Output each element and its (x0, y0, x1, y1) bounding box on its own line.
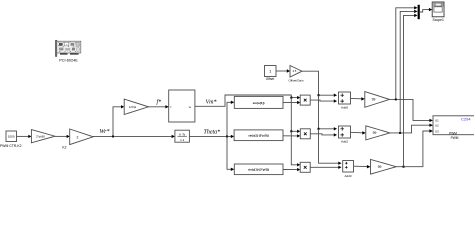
PCI card device block U0 (55, 40, 80, 56)
wire x1 to Add1 (310, 100, 334, 101)
wire Vm* over-route to product x1 (195, 95, 297, 106)
svg-text:PWM CTR-K2: PWM CTR-K2 (0, 144, 22, 148)
wire Wr* main to integrator (93, 135, 172, 137)
node offset junction 1 (318, 94, 320, 96)
node Wr junction (112, 135, 114, 137)
svg-text:U2: U2 (435, 124, 439, 128)
node gain2 junction (399, 132, 401, 134)
svg-text:U1: U1 (435, 118, 439, 122)
svg-text:Add3: Add3 (344, 174, 351, 178)
Fcn block sin(u[1]-(2*pi/3)) (234, 130, 283, 141)
gain block G3 value 99 (371, 159, 397, 174)
product block x3 (300, 162, 310, 172)
wire Fcn1 to x1 (283, 102, 297, 104)
svg-text:Add0: Add0 (341, 106, 348, 110)
wire offset to Add3 (319, 129, 339, 163)
gain 1/2/pi (124, 99, 148, 114)
svg-text:2: 2 (77, 135, 79, 139)
svg-text:Scope1: Scope1 (432, 18, 444, 22)
wire Fcn3 to x3 (283, 169, 297, 171)
wire Offset to gain 0.5 (276, 70, 287, 72)
wire offset to Add1 (302, 71, 334, 95)
svg-text:Add2: Add2 (341, 140, 348, 144)
product block x2 (300, 129, 310, 139)
node gain3 junction (403, 166, 405, 168)
svg-text:1/2/pi: 1/2/pi (129, 105, 137, 109)
svg-text:z-1: z-1 (180, 138, 184, 142)
Fcn block sin(u[1]+(2*pi/3)) (234, 164, 283, 175)
wire gain3 up to mux in3 (404, 15, 415, 166)
gain 2*pi/60 (31, 130, 55, 143)
svg-text:sin(u[1]): sin(u[1]) (253, 101, 265, 105)
constant block 1 Offset (265, 66, 277, 77)
wire Vm* down to product x3 (291, 131, 297, 165)
constant block 1000 (6, 131, 17, 142)
V/f converter block (169, 90, 195, 122)
wire gain2 to PWM in2 (390, 125, 430, 133)
svg-text:sin(u[1]-(2*pi/3)): sin(u[1]-(2*pi/3)) (248, 134, 269, 138)
sum block Add2 (339, 126, 351, 138)
svg-text:1000: 1000 (8, 135, 15, 139)
mux block (418, 5, 420, 19)
svg-text:Wr*: Wr* (100, 129, 110, 135)
scope block Scope1 (432, 2, 444, 17)
svg-text:f*: f* (157, 99, 162, 106)
node Theta junction (226, 135, 228, 137)
wire gain1 to PWM in1 (390, 99, 430, 120)
wire x2 to Add2 (310, 134, 334, 135)
wire gain1 to gain K2 (55, 135, 67, 137)
wire Theta* to Fcn2 (189, 135, 231, 137)
svg-text:K Ts: K Ts (179, 132, 185, 136)
discrete integrator block (175, 130, 190, 142)
svg-text:Theta*: Theta* (204, 129, 221, 135)
gain block G2 value 99 (366, 126, 390, 140)
node offset junction 2 (318, 128, 320, 130)
wire Add1 to gain1 (351, 97, 362, 99)
wire offset to Add2 (319, 95, 335, 129)
wire Vm* down to product x2 (291, 98, 297, 132)
wire gain2 up to mux in2 (400, 11, 414, 132)
wire gain1 up to mux in1 (396, 8, 415, 100)
wire mux to scope (420, 10, 429, 12)
wire constant to gain1 (17, 135, 29, 137)
svg-text:99: 99 (372, 98, 376, 102)
gain K2 value 2 (70, 129, 94, 145)
svg-text:sin(u[1]+(2*pi/3)): sin(u[1]+(2*pi/3)) (248, 168, 269, 172)
gain block G1 value 99 (365, 92, 390, 108)
wire gain3 to PWM in3 (396, 131, 429, 167)
node gain1 junction (395, 98, 397, 100)
svg-text:K2: K2 (62, 145, 66, 149)
svg-text:PWM: PWM (451, 136, 459, 140)
svg-text:2*pi/60: 2*pi/60 (36, 135, 45, 139)
svg-text:PWM: PWM (449, 131, 457, 135)
wire Wr* up to 1/2/pi gain (113, 107, 121, 137)
PWM output block (433, 116, 474, 136)
svg-text:99: 99 (373, 131, 377, 135)
sum block Add3 (343, 161, 354, 173)
sum block Add1 (339, 92, 351, 104)
svg-text:Offset: Offset (266, 77, 275, 81)
svg-text:Offset/Gain: Offset/Gain (288, 79, 303, 83)
svg-text:PCI-6024E: PCI-6024E (59, 58, 78, 62)
wire Add2 to gain2 (351, 131, 363, 134)
svg-text:C294: C294 (461, 117, 471, 122)
wire Theta* down to Fcn3 (227, 136, 231, 169)
Fcn block sin(u[1]) (234, 96, 283, 108)
svg-text:99: 99 (378, 165, 382, 169)
gain 0.5 Offset/Gain (290, 66, 302, 78)
svg-text:0.5: 0.5 (293, 69, 297, 73)
node Vm junction 2 (290, 130, 292, 132)
svg-text:Vm*: Vm* (206, 100, 217, 106)
wire f* to V/f block (149, 106, 166, 108)
wire Fcn2 to x2 (283, 135, 297, 137)
wire Add3 to gain3 (354, 165, 368, 167)
node Vm junction 1 (290, 97, 292, 99)
product block x1 (300, 95, 310, 105)
wire Theta* up to Fcn1 (227, 102, 231, 136)
wire x3 to Add3 (310, 166, 338, 168)
svg-text:U3: U3 (435, 129, 439, 133)
